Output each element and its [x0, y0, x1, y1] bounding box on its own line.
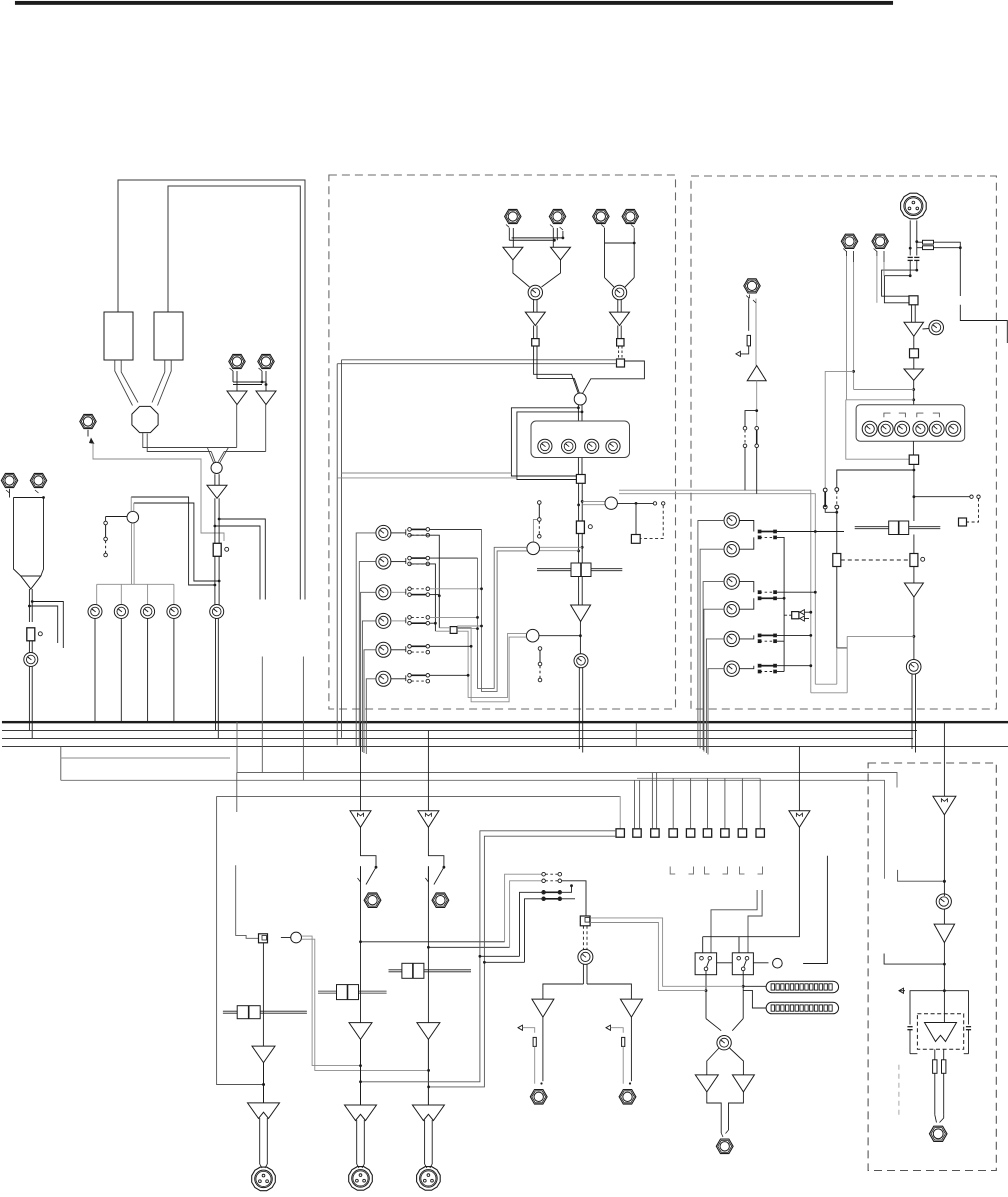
- cue amp R: [620, 999, 642, 1017]
- wire mic pot out: [534, 300, 537, 312]
- cue contacts r4: [542, 897, 562, 901]
- ground dashed stub: [898, 1065, 900, 1119]
- wire aux pot M2 left: [359, 562, 376, 747]
- insert loop out: [511, 408, 582, 480]
- assign square 2: [633, 829, 641, 837]
- wire st aux to bus: [912, 674, 916, 753]
- wire amp2 down: [912, 380, 915, 404]
- aux send line B: [237, 722, 897, 788]
- wire ball out pair: [577, 405, 583, 421]
- wire M5 top: [430, 645, 473, 648]
- monitor level ball: [281, 932, 302, 943]
- xfmr cap L: [907, 1027, 917, 1054]
- insert point square: [576, 475, 585, 484]
- assign square 9: [756, 829, 764, 837]
- wire direct contacts: [617, 502, 665, 505]
- contacts R56: [739, 634, 776, 643]
- tone bracket 1: [884, 413, 906, 417]
- output transformer box: [917, 1014, 963, 1050]
- aux pot R4: [724, 602, 739, 617]
- fader F1: [213, 543, 229, 556]
- wire ball2 link: [539, 635, 579, 637]
- mute square: [631, 535, 640, 544]
- wire M3 rows: [430, 587, 483, 594]
- st amp A12: [904, 583, 923, 597]
- contacts M1: [391, 528, 430, 537]
- wire A12 down: [913, 597, 916, 660]
- wire out main 2: [943, 815, 946, 896]
- aux pot M6: [376, 671, 391, 686]
- wire cue split: [543, 964, 632, 999]
- phones ball: [773, 958, 783, 968]
- contacts M5: [391, 645, 430, 654]
- channel amp A9: [571, 605, 591, 622]
- wire insert jack tail: [88, 430, 224, 541]
- wire sq to amp: [912, 305, 916, 323]
- squares row feed line: [637, 777, 760, 779]
- wire xfer left b: [884, 276, 910, 303]
- bus line 4: [2, 746, 1008, 748]
- jack J-line-L: [1, 473, 17, 487]
- hybrid mixer node: [132, 406, 158, 432]
- st pan fader: [855, 521, 941, 535]
- wire ball to switch: [106, 517, 127, 522]
- wire out main 3: [943, 909, 945, 924]
- wire module link a: [261, 657, 263, 773]
- connector XLR-main-out: [929, 1126, 947, 1141]
- wire mon ball right: [302, 936, 431, 1072]
- connector XLR-in: [901, 193, 927, 219]
- wire P1 to bus: [94, 619, 96, 723]
- jack J-out-3: [432, 893, 449, 908]
- wire P4 to bus: [173, 619, 175, 723]
- wire to direct ball: [582, 501, 605, 504]
- relay box 1: [695, 953, 717, 975]
- channel module frame (dashed): [329, 175, 676, 709]
- send rail B2: [410, 564, 437, 631]
- meter 1 lead: [743, 985, 766, 987]
- mic amp A7: [525, 312, 545, 325]
- ch2 amp: [349, 1023, 372, 1040]
- wire aux pot M6 left: [366, 679, 376, 754]
- wire relay to ball: [753, 962, 768, 964]
- wire cueL down: [540, 1017, 543, 1085]
- wire P6 to bus pair: [29, 667, 32, 739]
- output transformer W: [925, 1014, 957, 1042]
- VU bargraph 1: [766, 981, 839, 993]
- cue select rows: [505, 874, 542, 962]
- wire ball1 left loop: [478, 529, 528, 691]
- jack J-ch-mic-T: [505, 209, 521, 223]
- assign square 5: [686, 829, 694, 837]
- wire aux pot R5 left: [706, 639, 724, 753]
- assign square 8: [738, 829, 746, 837]
- EQ pot 3: [585, 439, 599, 453]
- output frame (dashed): [868, 763, 996, 1171]
- switch SW-mon: [104, 521, 108, 557]
- wire aux sq right: [457, 625, 483, 630]
- wire F2 out pair: [29, 641, 32, 653]
- jack J-cue-L: [530, 1090, 547, 1105]
- wire aux pot R2 left: [700, 549, 724, 748]
- contacts R6r: [739, 664, 776, 673]
- wire to pfl ball1: [539, 547, 582, 550]
- contacts R34: [739, 582, 776, 610]
- phones pot: [717, 1036, 731, 1050]
- wire ch1 main: [262, 943, 264, 1046]
- st mute contacts: [914, 495, 980, 526]
- direct out ball: [605, 497, 617, 509]
- wire ch3 main: [427, 866, 429, 1022]
- cue contacts r2: [542, 879, 562, 883]
- wire tape sw feed: [825, 371, 853, 488]
- EQ block: [531, 421, 630, 458]
- meter amp M-mid: [789, 747, 810, 828]
- buffer amp A2: [256, 391, 276, 405]
- bus stub left: [60, 747, 62, 781]
- jack J-ch-line-R: [622, 209, 638, 223]
- wire cap out: [909, 261, 918, 278]
- fader F2: [27, 628, 43, 641]
- xfmr cap R: [964, 1027, 971, 1054]
- aux pot P-ch: [574, 654, 588, 668]
- relay link: [717, 962, 733, 964]
- wire aux pot R3 left: [703, 582, 724, 750]
- ch3 cue tap: [427, 946, 510, 949]
- gang square R: [784, 610, 812, 622]
- fuse L: [933, 1060, 937, 1074]
- wire out main 4: [943, 943, 946, 1014]
- bus assign feed: [619, 796, 621, 828]
- pot P6: [24, 653, 38, 667]
- gang fader R: [910, 554, 925, 567]
- wire ch2 main: [360, 866, 362, 1022]
- wire ch3 out pair: [425, 1120, 433, 1168]
- wire xfmr out: [935, 1049, 944, 1059]
- fuse R: [942, 1060, 946, 1074]
- pad square line: [617, 339, 624, 346]
- aux pot R6: [724, 661, 739, 676]
- ch2 fader: [318, 985, 387, 1000]
- assign square 7: [721, 829, 729, 837]
- aux send line A: [61, 780, 885, 879]
- record feed pair: [359, 831, 616, 1089]
- record send pair: [619, 490, 815, 693]
- pot P3: [141, 605, 155, 619]
- wire F1 out pair: [215, 557, 219, 606]
- select square line: [617, 359, 625, 367]
- wire balance join: [846, 400, 914, 459]
- wire tape-machine inner loop: [168, 186, 300, 600]
- wire cue dash pair: [583, 926, 587, 950]
- st aux pot: [906, 660, 921, 675]
- wire A3 out pair: [215, 498, 219, 543]
- pan fader F4: [537, 563, 622, 577]
- connector XLR-out-2: [349, 1167, 373, 1191]
- wire st-aux tail: [746, 295, 749, 331]
- wire branch right upper: [218, 518, 266, 600]
- aux pot M2: [376, 554, 391, 569]
- wire cueL gnd: [518, 1025, 536, 1084]
- contacts M2: [391, 556, 430, 565]
- st insert square: [910, 349, 919, 358]
- tone block: [856, 405, 965, 442]
- assign square 3: [651, 829, 659, 837]
- wire to amp2: [913, 358, 915, 369]
- st-aux contact R: [755, 426, 759, 493]
- wire xlr down pair: [909, 220, 918, 255]
- wire ch aux to bus: [579, 668, 582, 753]
- wire aux pot R4 left: [704, 609, 724, 751]
- wire st-aux main: [753, 299, 756, 366]
- wire sq2 down: [913, 464, 916, 521]
- wire xfer left a: [882, 270, 917, 296]
- wire st-aux gnd: [736, 346, 749, 357]
- wire out main top: [943, 722, 945, 796]
- wire P5 to bus pair: [216, 619, 219, 739]
- wire M2 top: [430, 557, 478, 559]
- wire gangL down: [837, 567, 847, 648]
- wire branch left lower: [131, 497, 216, 586]
- pad resistor R1: [923, 240, 934, 244]
- wire cueR gnd: [606, 1025, 625, 1084]
- ch3 fader: [389, 963, 472, 978]
- aux master square: [450, 627, 457, 634]
- channel input select bus: [337, 360, 616, 364]
- stereo module frame (dashed): [691, 176, 996, 709]
- wire branch A4 r2: [28, 605, 58, 643]
- tone pot 6: [946, 421, 961, 436]
- ch2 meter amp: [350, 811, 371, 828]
- wire pan cross: [913, 535, 915, 554]
- wire ch3 amp out: [427, 1039, 429, 1105]
- wire P2 to bus: [120, 619, 122, 723]
- wire select bracket: [583, 361, 645, 393]
- pot P4: [167, 605, 181, 619]
- wire phones split: [707, 1048, 744, 1075]
- transformer T2: [154, 312, 183, 360]
- contacts R12: [739, 521, 776, 550]
- relay box 2: [732, 953, 753, 975]
- wire R12 rows: [777, 530, 844, 671]
- phones amp L: [695, 1075, 718, 1092]
- tone pot 5: [929, 421, 944, 436]
- wire A2 out: [265, 405, 267, 452]
- jack J-out-2: [364, 893, 381, 908]
- wire phones out merge: [707, 1092, 744, 1137]
- wire aux sq left leads: [436, 628, 450, 631]
- st-aux amp (up): [747, 366, 766, 381]
- wire branch right lower: [214, 525, 261, 600]
- wire A7 to pad sq: [534, 326, 537, 339]
- aux send link L: [898, 870, 946, 883]
- aux pot R5: [724, 631, 739, 646]
- wire cue gray pair: [590, 918, 743, 991]
- wire aux pot R1 left: [698, 521, 724, 748]
- relay feed 1: [711, 890, 757, 953]
- wire phones merge: [706, 1019, 743, 1031]
- wire aux pot M4 left: [362, 621, 376, 752]
- line amp A3: [207, 485, 227, 498]
- send rail B1: [410, 535, 441, 628]
- ch3 amp: [417, 1023, 440, 1040]
- channel fader F3: [576, 521, 592, 534]
- pfl ball2: [526, 629, 539, 642]
- aux pot R1: [724, 513, 739, 528]
- wire m-mid to relays: [703, 827, 800, 953]
- wire jackL joins: [854, 389, 914, 391]
- wire branch left upper: [134, 503, 221, 582]
- wire M4 rows: [430, 616, 479, 623]
- jack J-insert: [80, 414, 96, 428]
- cue contacts r1: [542, 872, 562, 876]
- pad resistor R2: [923, 246, 934, 250]
- wire ch mic crossover: [506, 225, 564, 248]
- wire mic phase crossover: [230, 368, 268, 391]
- wire line pad link dashed: [619, 346, 622, 359]
- wire cueR down: [629, 1017, 632, 1085]
- bus line 5: [61, 757, 230, 759]
- wire R56 rows: [777, 634, 812, 641]
- buffer amp A1: [227, 391, 247, 405]
- connector XLR-out-1: [252, 1167, 276, 1191]
- st amp A11: [904, 369, 924, 380]
- VU bargraph 2: [766, 1002, 839, 1014]
- wire st-aux down: [745, 381, 758, 427]
- aux pot R2: [724, 542, 739, 557]
- wire aux pot M1 left: [356, 533, 376, 747]
- st gain amp A10: [904, 322, 924, 336]
- buffer amp A6: [551, 247, 571, 260]
- contacts M6: [391, 674, 430, 683]
- st gain pot: [923, 320, 944, 335]
- wire fader feed: [837, 470, 914, 488]
- wire A1 out: [236, 405, 238, 448]
- pot P5: [210, 605, 224, 619]
- tone pot 3: [895, 421, 910, 436]
- jack J-mic-R: [258, 354, 274, 368]
- pfl ball1: [527, 542, 540, 555]
- wire EQ out: [578, 458, 582, 475]
- st insert sq2: [909, 455, 918, 464]
- tone pot 4: [913, 421, 928, 436]
- wire line-in pair: [6, 489, 45, 576]
- record sw B: [835, 488, 839, 554]
- st-aux contact L: [743, 426, 747, 490]
- record sw A: [823, 488, 838, 514]
- wire ch2 jack hook: [358, 827, 378, 884]
- assign square 4: [669, 829, 677, 837]
- insert loop cross link: [337, 473, 517, 478]
- wire P3 to bus: [147, 619, 149, 723]
- channel src ball: [574, 393, 586, 405]
- transformer T1: [104, 312, 133, 360]
- ch2 cue tap: [359, 940, 505, 943]
- wire amp out: [579, 622, 583, 654]
- master pot: [936, 894, 951, 909]
- wire ch3 jack hook: [425, 827, 445, 884]
- wire R6 rows: [777, 664, 812, 671]
- dc block cap C1: [908, 257, 913, 260]
- relay feed 2: [748, 890, 762, 953]
- wire M1 top: [430, 528, 482, 530]
- wire fuse down: [935, 1073, 944, 1122]
- wire pan out: [579, 577, 583, 606]
- EQ pot 4: [606, 439, 620, 453]
- pot P2: [114, 605, 128, 619]
- wire ch2 amp out: [360, 1039, 362, 1105]
- wire module link b: [302, 657, 304, 781]
- jack J-mic-L: [229, 354, 245, 368]
- gang link dashed: [841, 559, 910, 561]
- tape select square: [259, 934, 268, 943]
- line amp A8: [610, 312, 630, 325]
- buffer amp A5: [503, 247, 523, 260]
- wire ball tail pair: [131, 497, 134, 512]
- jack J-phones: [716, 1139, 733, 1154]
- tone pot 1: [862, 421, 877, 436]
- ch3 meter amp: [418, 811, 439, 828]
- aux pot M4: [376, 613, 391, 628]
- pot P1: [88, 605, 102, 619]
- meter amp M-out: [933, 796, 956, 815]
- monitor stub line: [236, 865, 259, 938]
- wire xfmr drive L: [899, 988, 944, 1024]
- jack J-st-L: [841, 234, 857, 248]
- aux pot R3: [724, 574, 739, 589]
- ch2 power amp: [345, 1105, 377, 1121]
- wire A8 to sq: [618, 326, 621, 339]
- cue level pot: [578, 949, 593, 964]
- contacts M4: [391, 616, 430, 625]
- wire tone out: [912, 441, 914, 455]
- record switch ch: [533, 501, 541, 542]
- bus line main thick: [2, 721, 1008, 723]
- wire ch line inputs: [601, 225, 635, 288]
- bus line 2: [2, 730, 917, 732]
- phones amp R: [732, 1075, 754, 1092]
- assign square 1: [616, 829, 624, 837]
- assign verticals: [635, 773, 761, 829]
- wire ball down pair: [132, 523, 135, 584]
- wire tape-machine outer loop: [118, 180, 305, 600]
- record U loop: [811, 636, 914, 692]
- st input square: [909, 296, 918, 305]
- gain pot P-line: [612, 285, 626, 299]
- wire M6 top: [430, 674, 470, 677]
- wire ch2 drop: [360, 722, 362, 811]
- gain pot P-mic: [528, 285, 542, 299]
- wire T1 output pair: [115, 360, 138, 406]
- wire aux pot M3 left: [361, 592, 376, 751]
- wire ch2 out pair: [357, 1120, 365, 1168]
- wire gangR down: [913, 567, 915, 584]
- wire fader out: [577, 534, 583, 564]
- tone pot 2: [878, 421, 893, 436]
- aux pot M1: [376, 525, 391, 540]
- cue contacts r3: [542, 891, 562, 895]
- wire st jack R net: [877, 256, 884, 303]
- monitor ball: [127, 511, 139, 523]
- group bracket 1: [670, 867, 693, 875]
- wire st jack L net: [847, 256, 855, 400]
- dc block cap C2: [914, 257, 919, 260]
- wire ball2 left loop: [458, 628, 527, 702]
- wire xfmr drive R: [944, 991, 968, 1025]
- wire direct dashed gang: [640, 505, 663, 538]
- meter 2 lead: [743, 990, 766, 1008]
- wire ch1 out pair: [260, 1118, 268, 1168]
